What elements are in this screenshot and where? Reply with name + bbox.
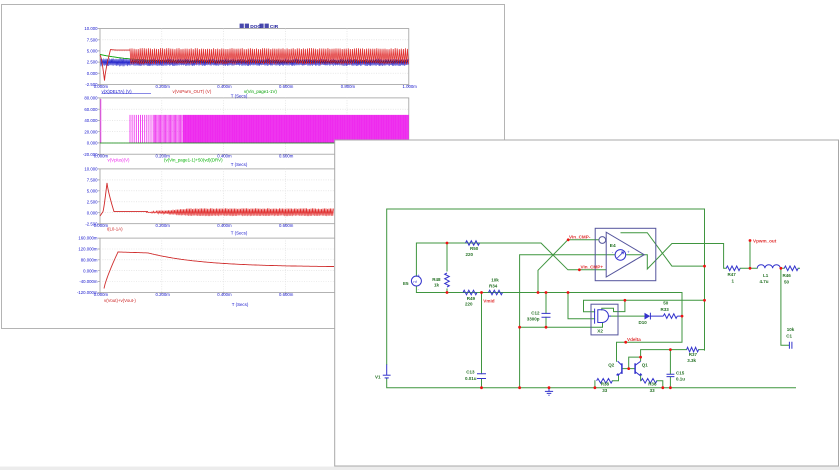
wire: outer loop V1 top rail [387,209,705,365]
junction (628.7,368.6) [627,367,630,370]
svg-text:Q1: Q1 [642,362,649,367]
wire: sense line to E4 circle [520,255,615,388]
op-amp E4 bubble [599,237,606,244]
plot grid [100,169,409,224]
svg-text:R33: R33 [661,307,670,312]
wire: op-amp feedback bubble loop [621,233,705,266]
svg-text:0.400m: 0.400m [217,292,232,297]
junction (670.4,387.7) [669,386,672,389]
svg-text:80.000: 80.000 [84,96,98,101]
junction (481.5,387.7) [480,386,483,389]
junction (568.2,239.8) [567,238,570,241]
ground [548,388,550,392]
svg-text:10k: 10k [787,327,795,332]
svg-text:50: 50 [784,279,790,284]
svg-text:Q2: Q2 [608,362,615,367]
svg-text:v(VsPwm_OUT) (V): v(VsPwm_OUT) (V) [173,89,212,94]
svg-text:0.000m: 0.000m [94,154,109,159]
svg-text:v(Vplus)(V): v(Vplus)(V) [108,157,130,162]
svg-text:4.7u: 4.7u [760,279,769,284]
svg-text:X2: X2 [597,329,603,334]
svg-text:10.000: 10.000 [84,26,98,31]
svg-text:220: 220 [466,252,474,257]
svg-text:3300p: 3300p [527,316,540,321]
transistor terminal dots [617,374,619,376]
svg-text:5.000: 5.000 [87,188,98,193]
junction (640.6,357.1) [639,356,642,359]
plot grid [100,238,409,292]
svg-text:0.1u: 0.1u [676,376,685,381]
svg-text:40.000: 40.000 [84,118,98,123]
svg-text:0.000m: 0.000m [83,268,98,273]
junction (519.6,387.7) [518,386,521,389]
wire: Vpwm_out stub [749,241,751,269]
svg-text:80.000m: 80.000m [81,257,98,262]
resistor R47 [726,266,740,271]
svg-text:R49: R49 [467,296,476,301]
wire: C15 stubs [669,350,671,388]
wire: E5 top to R50 line then diagonal to CMP+ input [416,243,606,276]
wire: op-amp output jog and cross to R47 [627,244,727,270]
svg-text:0.000: 0.000 [87,71,98,76]
wire: C1 branch [781,268,789,345]
wire: R38 stubs [595,376,619,388]
svg-text:E5: E5 [403,281,409,286]
svg-text:R50: R50 [470,246,479,251]
resistor R36 [641,379,657,384]
capacitor C12 [542,313,551,317]
transistor Q1 [634,363,636,374]
capacitor C13 [477,374,486,379]
resistor R48 [445,273,450,287]
junction (594.9,387.7) [594,386,597,389]
junction (682,316.1) [681,315,684,318]
svg-text:T (Secs): T (Secs) [231,93,248,98]
plot3 traces [146,208,334,216]
svg-text:C15: C15 [676,370,685,375]
junction (579.4,269.8) [578,268,581,271]
junction (624.9,300.3) [624,299,627,302]
plot grid [100,98,409,154]
capacitor C1 [789,342,792,349]
svg-text:50: 50 [663,301,669,306]
svg-text:0.200m: 0.200m [155,292,170,297]
wire: E5 bottom row with R49 R34 [416,286,682,361]
svg-text:0.000: 0.000 [87,141,98,146]
svg-text:i(L0-1A): i(L0-1A) [107,227,123,232]
svg-text:2.500: 2.500 [87,60,98,65]
svg-text:Vpwm_out: Vpwm_out [753,239,777,244]
junction (750,240.5) [749,239,752,242]
wire: base tie and mirror link [622,357,641,369]
svg-text:V1: V1 [375,374,381,379]
plot1 traces [100,55,406,63]
op-amp E4 box [595,228,656,280]
junction (625.7,342.2) [624,341,627,344]
svg-text:+: + [418,273,420,277]
junction (447,292.5) [446,291,449,294]
wire: R48 stubs [446,243,448,293]
svg-text:3.3k: 3.3k [687,358,696,363]
junction (538,292.5) [537,291,540,294]
svg-text:0.800m: 0.800m [341,84,356,89]
wire: gate output to D10 R33 [611,315,645,317]
resistor R33 [663,314,677,319]
resistor R50 [466,241,480,246]
svg-text:T (Secs): T (Secs) [231,230,248,235]
junction (481.5,292.5) [480,291,483,294]
svg-text:T (Secs): T (Secs) [231,162,248,167]
svg-text:10k: 10k [491,277,499,282]
svg-text:5.000: 5.000 [87,49,98,54]
diode D10 [645,313,651,320]
svg-text:Vin_CMP+: Vin_CMP+ [581,265,604,270]
svg-text:0.600m: 0.600m [279,84,294,89]
svg-text:v(Vin_page1-1V): v(Vin_page1-1V) [244,89,277,94]
svg-text:7.500: 7.500 [87,177,98,182]
svg-text:T (Secs): T (Secs) [232,302,249,307]
transistor Q2 [621,363,623,374]
resistor R46 [784,266,798,271]
schematic editor window [335,140,839,466]
svg-text:R34: R34 [489,283,498,288]
resistor R49 [463,290,477,295]
wire: C12 stubs [545,293,547,328]
svg-text:Vdelta: Vdelta [627,337,641,342]
svg-text:10.000: 10.000 [84,167,98,172]
wire: R36 stubs [641,376,663,388]
svg-text:1k: 1k [434,282,440,287]
resistor R37 [687,347,699,352]
svg-text:R46: R46 [783,273,792,278]
svg-text:0.000: 0.000 [87,210,98,215]
svg-text:Vin_CMP-: Vin_CMP- [569,235,591,240]
waveform viewer window [2,5,505,329]
op-amp E4 triangle [606,232,644,277]
svg-text:0.600m: 0.600m [279,223,294,228]
svg-text:E4: E4 [610,243,616,249]
svg-text:1.000m: 1.000m [403,84,418,89]
junction (546,292.5) [545,291,548,294]
svg-text:0.200m: 0.200m [155,223,170,228]
junction (519.6,327.2) [518,326,521,329]
svg-text:v(Vout)+v(Vout-): v(Vout)+v(Vout-) [104,298,136,303]
junction (568,292.5) [567,291,570,294]
svg-text:R47: R47 [728,272,737,277]
junction (704.5,266.1) [703,265,706,268]
resistor R38 [597,379,613,384]
svg-text:R37: R37 [689,352,698,357]
svg-text:60.000: 60.000 [84,107,98,112]
capacitor C15 [667,374,675,376]
svg-text:CIR: CIR [270,24,279,30]
svg-text:C1: C1 [786,333,792,338]
wire: R47 to L1 to R46 [740,267,799,269]
wire: gate upper input [568,293,595,319]
svg-text:L1: L1 [763,273,769,278]
svg-text:D10: D10 [639,320,648,325]
svg-text:R38: R38 [601,382,610,387]
svg-text:R36: R36 [648,382,657,387]
svg-text:20.000: 20.000 [84,129,98,134]
comparator X2 box [591,304,618,335]
plot1 title [240,24,279,30]
junction (780.9,268.3) [780,267,783,270]
svg-text:Vmid: Vmid [483,299,494,304]
svg-text:0.01u: 0.01u [465,376,477,381]
svg-text:0.200m: 0.200m [155,84,170,89]
plot grid [100,29,409,85]
wire: R37 row from Q1 collector to x705 [641,350,705,358]
junction (750,268.3) [749,267,752,270]
source E5 [411,276,421,286]
plot4 trace [104,252,334,289]
svg-text:2.500: 2.500 [87,199,98,204]
E4 source circle [615,250,626,261]
wire: low node to gate bottom [520,323,603,328]
wire: diode to R33 blue stubs [650,315,681,317]
svg-text:120.000m: 120.000m [78,247,98,252]
svg-text:R48: R48 [432,277,441,282]
svg-text:160.000m: 160.000m [78,236,98,241]
plot2 traces [101,99,409,143]
battery V1 [386,365,388,379]
svg-text:0.400m: 0.400m [217,223,232,228]
X2 AND gate [594,309,596,324]
svg-text:C13: C13 [466,370,475,375]
svg-text:7.500: 7.500 [87,37,98,42]
svg-text:220: 220 [465,301,473,306]
inductor L1 [757,265,780,269]
svg-text:-40.000m: -40.000m [79,279,98,284]
junction (549,387.7) [548,386,551,389]
junction (670.4,349.6) [669,348,672,351]
bottom gray strip [0,467,840,470]
svg-text:33: 33 [602,388,608,393]
wire: X2 feedback loop [584,300,705,311]
wire: crossing to Vin_CMP- [538,240,598,293]
svg-text:C12: C12 [531,310,540,315]
svg-text:0.600m: 0.600m [279,154,294,159]
wire: Vmid / C13 vertical [481,293,483,388]
resistor R34 [489,290,503,295]
svg-text:0.600m: 0.600m [279,292,294,297]
junction (447,243) [446,242,449,245]
junction (662.8,387.7) [661,386,664,389]
svg-text:0.000m: 0.000m [94,292,109,297]
wire: bottom ground rail [387,379,796,388]
svg-text:(v(Vin_page1-1)+50(vd)(DRV): (v(Vin_page1-1)+50(vd)(DRV) [164,158,223,163]
svg-text:33: 33 [650,388,656,393]
svg-text:v(X)DELTA) (V): v(X)DELTA) (V) [102,89,133,94]
svg-text:0.400m: 0.400m [217,84,232,89]
junction (546,327.2) [545,326,548,329]
junction (704.5,300.3) [703,299,706,302]
